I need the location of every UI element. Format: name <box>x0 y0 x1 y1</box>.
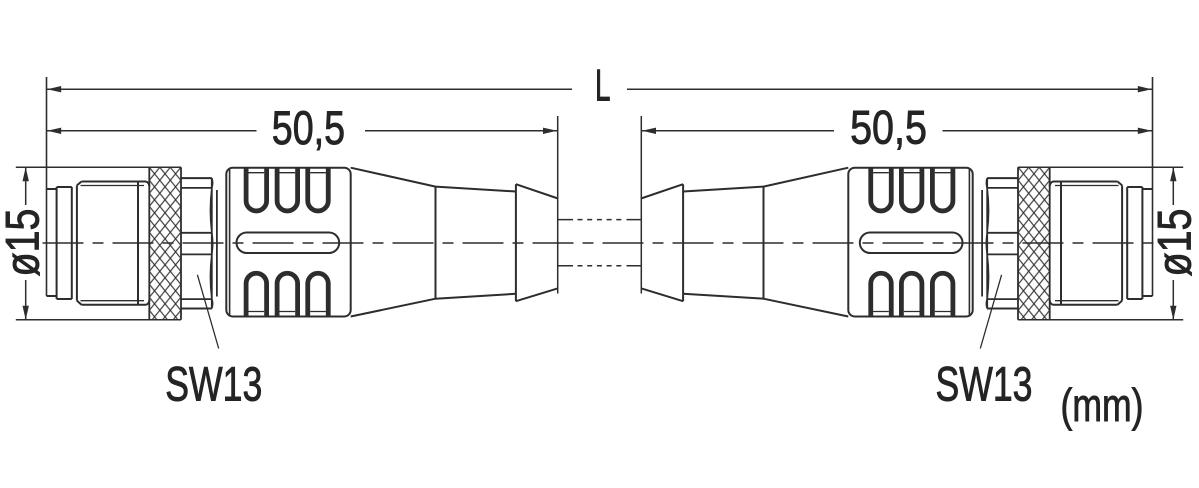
cable outline top <box>558 219 642 221</box>
svg-text:L: L <box>595 62 611 111</box>
svg-text:50,5: 50,5 <box>272 101 345 154</box>
right connector (mirrored) <box>627 77 1183 349</box>
left connector <box>16 77 572 349</box>
svg-text:(mm): (mm) <box>1061 379 1144 431</box>
svg-text:ø15: ø15 <box>0 209 49 277</box>
cable outline bottom <box>558 265 642 267</box>
centerline <box>43 242 1157 244</box>
svg-text:SW13: SW13 <box>165 359 262 412</box>
svg-text:SW13: SW13 <box>936 359 1033 412</box>
svg-text:ø15: ø15 <box>1148 209 1199 277</box>
svg-text:50,5: 50,5 <box>850 101 927 154</box>
